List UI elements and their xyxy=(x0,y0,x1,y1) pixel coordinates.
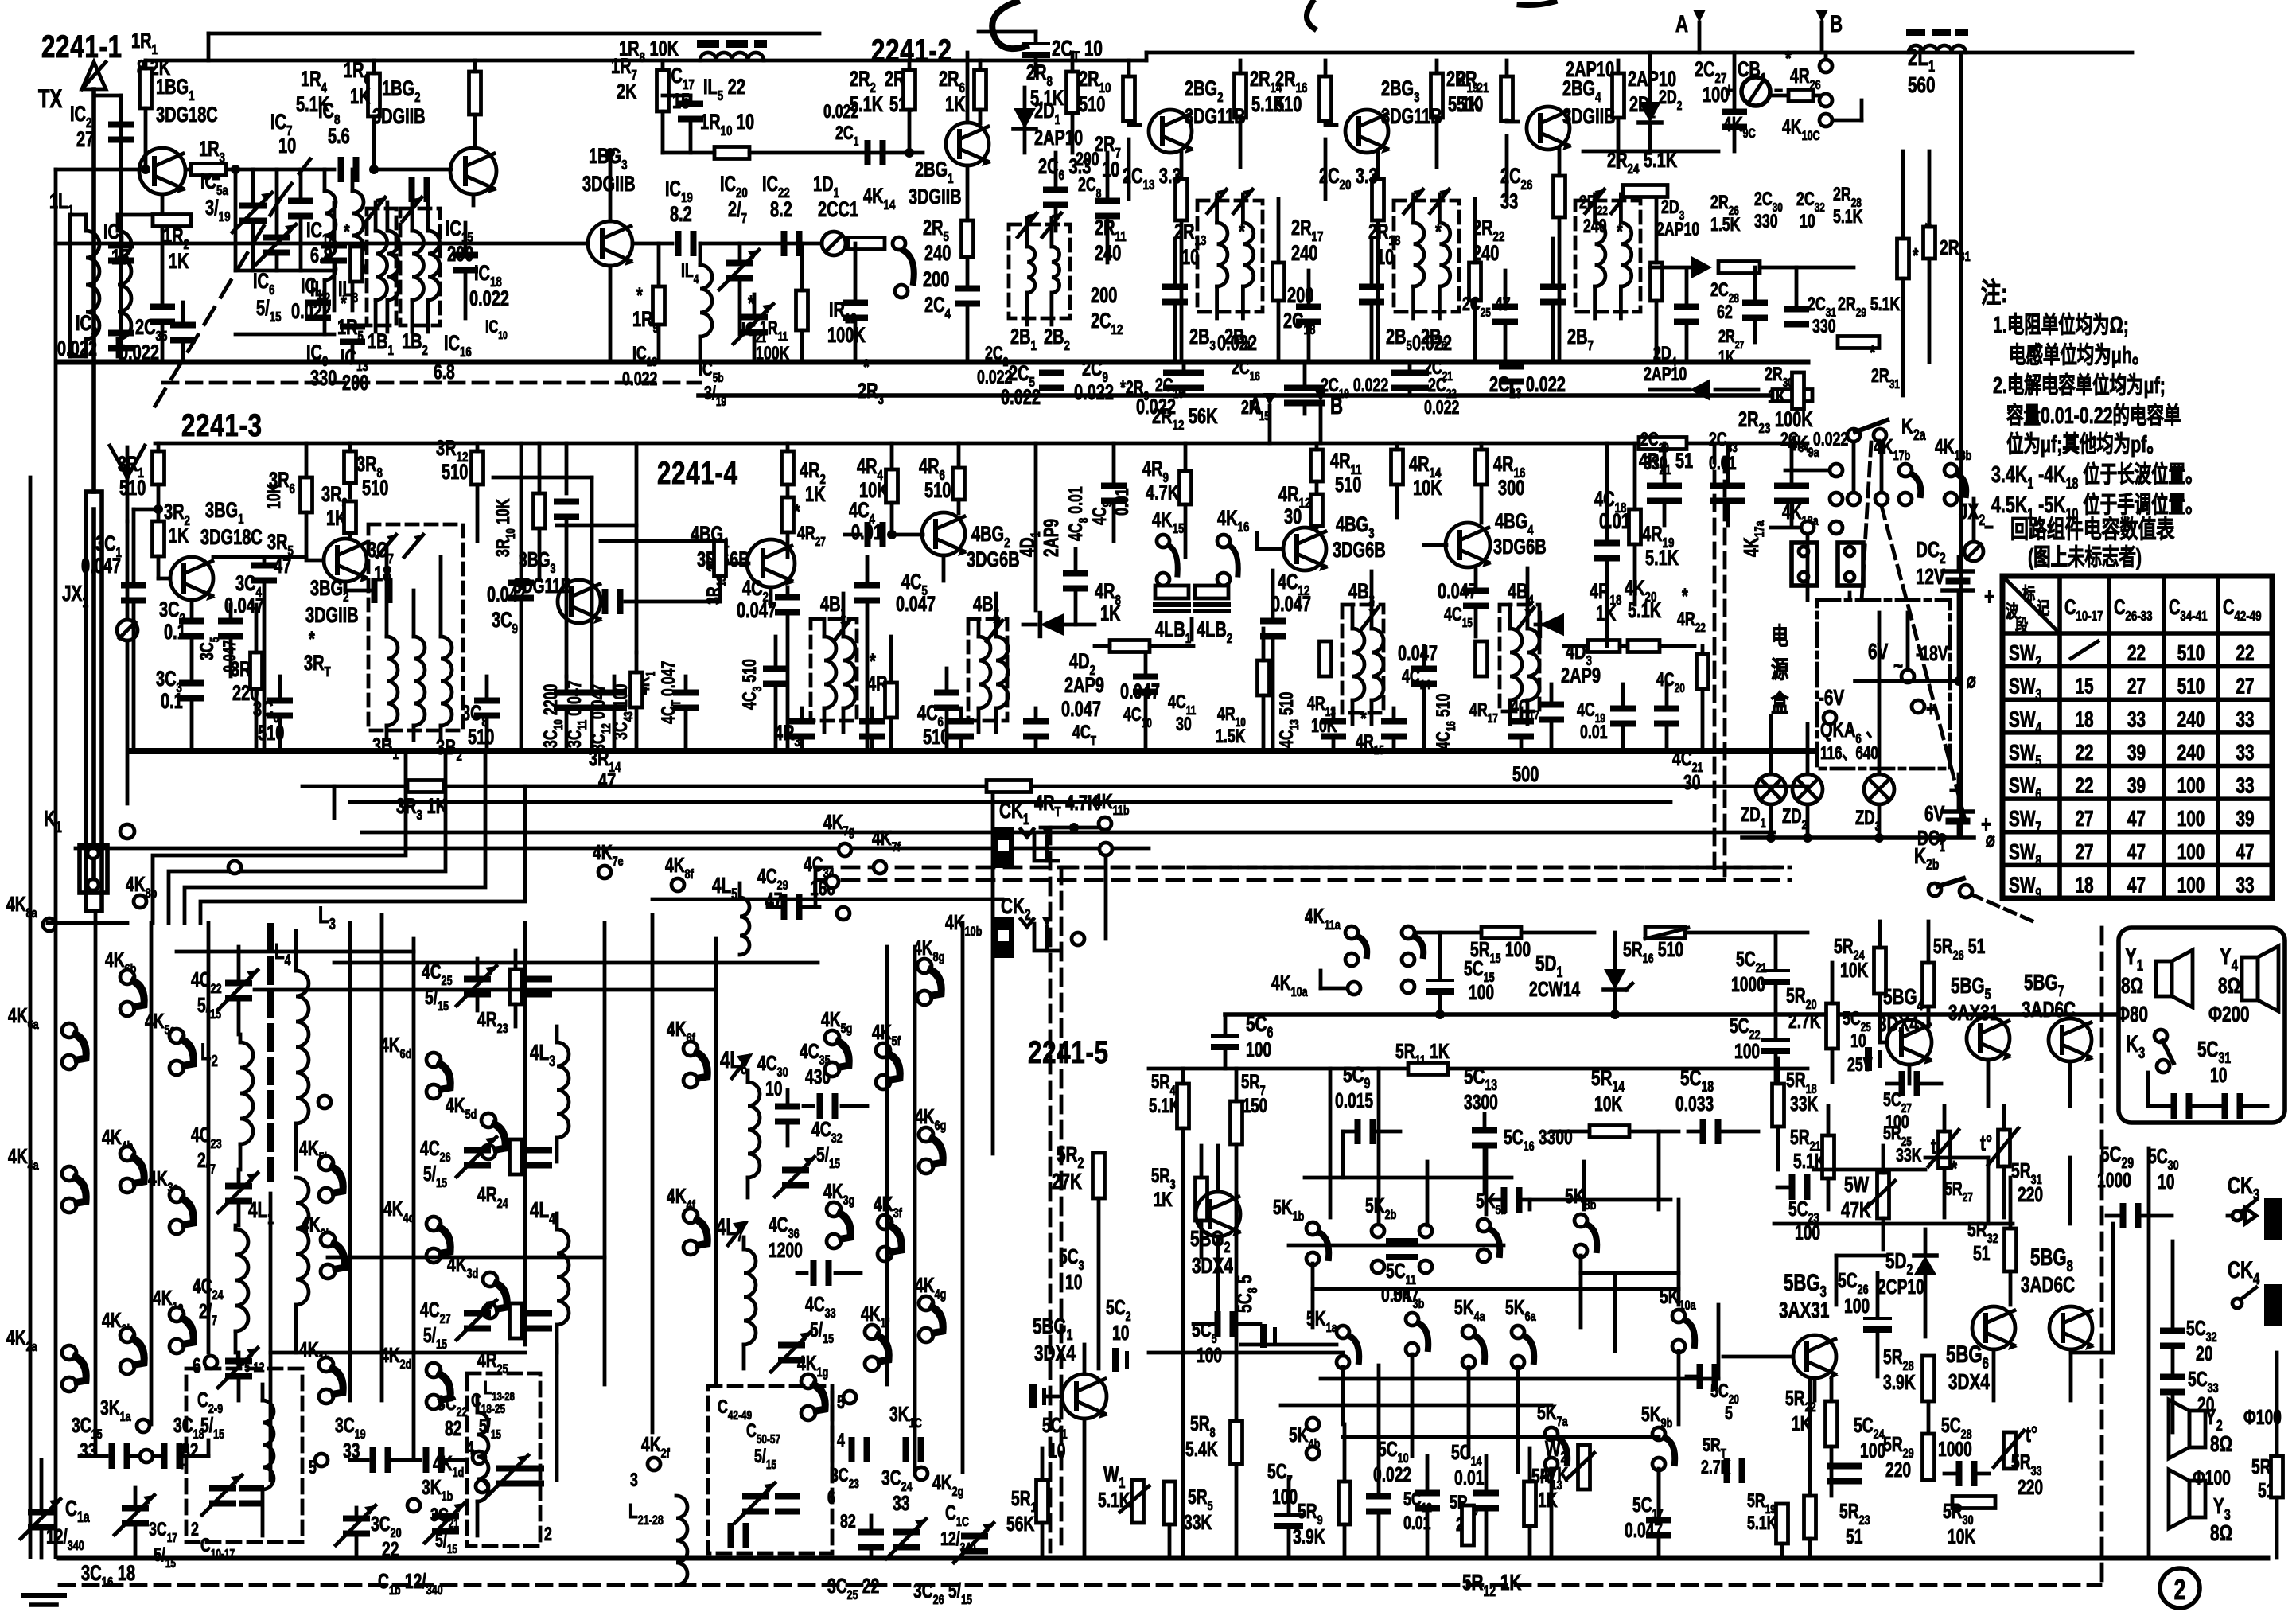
svg-text:27: 27 xyxy=(2075,807,2093,831)
svg-text:2AP9: 2AP9 xyxy=(1064,673,1104,698)
svg-text:82: 82 xyxy=(445,1416,461,1440)
svg-text:33: 33 xyxy=(2236,774,2254,799)
svg-text:3DG6B: 3DG6B xyxy=(1333,538,1386,563)
svg-text:240: 240 xyxy=(2177,741,2205,765)
svg-text:TX: TX xyxy=(38,85,62,113)
svg-text:39: 39 xyxy=(2236,807,2254,831)
svg-text:*: * xyxy=(309,627,315,652)
svg-text:10: 10 xyxy=(1112,1321,1129,1345)
svg-text:−: − xyxy=(1774,78,1783,102)
svg-text:100: 100 xyxy=(2177,807,2205,831)
svg-text:3DGIIB: 3DGIIB xyxy=(372,104,426,129)
svg-text:电: 电 xyxy=(1771,623,1788,650)
svg-text:源: 源 xyxy=(1771,656,1789,683)
svg-text:100: 100 xyxy=(1246,1038,1271,1061)
svg-text:18: 18 xyxy=(2075,707,2093,732)
svg-text:51: 51 xyxy=(1846,1524,1863,1548)
svg-text:回路组件电容数值表: 回路组件电容数值表 xyxy=(2010,516,2175,543)
svg-text:Φ80: Φ80 xyxy=(2116,1003,2148,1027)
svg-text:0.047: 0.047 xyxy=(1061,697,1101,722)
svg-text:B: B xyxy=(1330,392,1343,419)
svg-text:位为μf;其他均为pf。: 位为μf;其他均为pf。 xyxy=(2006,431,2164,458)
svg-text:0.022: 0.022 xyxy=(823,102,858,123)
svg-text:22: 22 xyxy=(2075,774,2093,799)
svg-text:510: 510 xyxy=(362,476,388,500)
svg-text:1K: 1K xyxy=(1100,602,1121,626)
svg-text:4: 4 xyxy=(837,1431,845,1451)
svg-text:3.4K1 -4K18 位于长波位置。: 3.4K1 -4K18 位于长波位置。 xyxy=(1991,461,2202,493)
svg-text:0.022: 0.022 xyxy=(469,286,509,311)
svg-text:0.022: 0.022 xyxy=(1136,395,1176,419)
svg-text:Φ100: Φ100 xyxy=(2193,1466,2231,1489)
svg-text:30: 30 xyxy=(1683,770,1700,794)
svg-text:27: 27 xyxy=(2127,675,2146,699)
svg-text:0.022: 0.022 xyxy=(1412,331,1452,356)
svg-text:33: 33 xyxy=(1500,189,1518,214)
svg-text:3AD6C: 3AD6C xyxy=(2021,1273,2075,1298)
svg-text:510: 510 xyxy=(1079,92,1105,117)
svg-text:(图上未标志者): (图上未标志者) xyxy=(2028,544,2142,570)
svg-text:6V: 6V xyxy=(1924,802,1945,827)
svg-text:510: 510 xyxy=(119,476,146,500)
svg-text:2241-2: 2241-2 xyxy=(871,33,952,68)
svg-text:⌀: ⌀ xyxy=(1986,827,1995,851)
svg-text:10: 10 xyxy=(2158,1170,2174,1193)
svg-text:10: 10 xyxy=(1181,245,1199,270)
svg-text:*: * xyxy=(636,283,643,308)
svg-text:10: 10 xyxy=(278,134,296,158)
svg-text:2AP9: 2AP9 xyxy=(1561,664,1601,688)
svg-text:2241-4: 2241-4 xyxy=(657,455,738,491)
svg-text:2: 2 xyxy=(544,1524,552,1545)
svg-text:47: 47 xyxy=(2127,874,2146,898)
svg-text:220: 220 xyxy=(2018,1182,2043,1206)
svg-text:0.022: 0.022 xyxy=(1424,398,1459,419)
svg-text:2: 2 xyxy=(191,1520,199,1540)
svg-text:2.电解电容单位均为μf;: 2.电解电容单位均为μf; xyxy=(1993,372,2166,399)
svg-text:100K: 100K xyxy=(756,344,790,364)
svg-text:200: 200 xyxy=(923,267,949,292)
svg-text:5.1K: 5.1K xyxy=(1645,546,1679,570)
svg-text:15: 15 xyxy=(2075,675,2093,699)
svg-text:+: + xyxy=(1725,78,1734,102)
svg-text:2CP10: 2CP10 xyxy=(1878,1275,1924,1299)
svg-text:3DG11B: 3DG11B xyxy=(1381,104,1442,129)
svg-text:22: 22 xyxy=(2075,741,2093,765)
svg-text:3.9K: 3.9K xyxy=(1293,1524,1325,1548)
svg-text:*: * xyxy=(1239,220,1245,244)
svg-text:0.047: 0.047 xyxy=(896,592,936,617)
svg-text:300: 300 xyxy=(1498,476,1524,500)
svg-text:10: 10 xyxy=(1049,1439,1065,1462)
svg-text:2AP9: 2AP9 xyxy=(1039,519,1063,557)
svg-text:1K: 1K xyxy=(1718,348,1735,368)
svg-text:0.01: 0.01 xyxy=(1454,1466,1485,1489)
svg-text:240: 240 xyxy=(1095,241,1121,266)
svg-text:220: 220 xyxy=(1885,1458,1911,1482)
svg-text:5.1K: 5.1K xyxy=(1628,598,1661,623)
svg-text:100: 100 xyxy=(2177,774,2205,799)
svg-text:510: 510 xyxy=(1335,473,1361,497)
svg-text:100: 100 xyxy=(2177,840,2205,865)
svg-text:100K: 100K xyxy=(827,323,866,348)
svg-text:6: 6 xyxy=(193,1353,201,1377)
svg-text:33: 33 xyxy=(80,1439,96,1462)
svg-text:10: 10 xyxy=(1850,1031,1866,1052)
svg-text:0.015: 0.015 xyxy=(1335,1088,1373,1112)
svg-text:47: 47 xyxy=(2127,840,2146,865)
svg-text:注:: 注: xyxy=(1981,278,2008,309)
svg-text:1.5K: 1.5K xyxy=(1216,726,1246,747)
svg-text:2: 2 xyxy=(2174,1573,2186,1606)
svg-text:*: * xyxy=(341,291,347,316)
svg-text:510: 510 xyxy=(2177,675,2205,699)
svg-text:33K: 33K xyxy=(1184,1510,1212,1534)
svg-text:Φ200: Φ200 xyxy=(2208,1003,2250,1027)
svg-text:5W: 5W xyxy=(1844,1173,1870,1197)
svg-text:560: 560 xyxy=(1908,73,1936,98)
svg-text:10: 10 xyxy=(1065,1270,1082,1294)
svg-text:510: 510 xyxy=(468,725,494,750)
svg-text:10: 10 xyxy=(2210,1063,2227,1087)
svg-text:3DG11B: 3DG11B xyxy=(1185,104,1246,129)
svg-text:20: 20 xyxy=(2196,1341,2212,1365)
svg-text:3DX4: 3DX4 xyxy=(1034,1341,1076,1366)
svg-text:3DX4: 3DX4 xyxy=(1192,1254,1233,1279)
svg-text:100: 100 xyxy=(1272,1485,1298,1509)
svg-text:12V: 12V xyxy=(1916,565,1945,590)
svg-text:-6V: -6V xyxy=(1819,686,1845,711)
svg-text:200: 200 xyxy=(342,371,368,395)
svg-text:200: 200 xyxy=(1287,283,1313,308)
svg-text:2AP10: 2AP10 xyxy=(1644,364,1687,385)
svg-text:3DG18C: 3DG18C xyxy=(156,103,218,127)
svg-text:电感单位均为μh。: 电感单位均为μh。 xyxy=(2009,342,2149,368)
svg-text:4: 4 xyxy=(177,1453,185,1474)
svg-text:116、640: 116、640 xyxy=(1820,744,1878,764)
svg-text:5: 5 xyxy=(1725,1404,1733,1424)
svg-text:0.022: 0.022 xyxy=(1001,385,1041,410)
svg-text:0.047: 0.047 xyxy=(81,554,121,578)
svg-text:22: 22 xyxy=(2127,641,2146,666)
svg-text:2AP10: 2AP10 xyxy=(1566,57,1614,82)
svg-text:1K: 1K xyxy=(1538,1488,1558,1512)
svg-text:1.5K: 1.5K xyxy=(1710,215,1741,236)
svg-text:3DG6B: 3DG6B xyxy=(967,547,1020,572)
svg-text:标: 标 xyxy=(2022,585,2035,605)
svg-text:220: 220 xyxy=(2018,1475,2043,1499)
svg-text:B: B xyxy=(1830,10,1843,37)
svg-text:15: 15 xyxy=(111,245,129,270)
svg-text:2241-1: 2241-1 xyxy=(41,29,123,64)
svg-text:27: 27 xyxy=(76,127,94,152)
svg-text:6: 6 xyxy=(827,1488,835,1509)
svg-text:22: 22 xyxy=(2236,641,2254,666)
svg-text:100: 100 xyxy=(1844,1294,1870,1318)
svg-text:0.022: 0.022 xyxy=(1217,331,1257,356)
svg-text:100: 100 xyxy=(2177,874,2205,898)
svg-text:33K: 33K xyxy=(1790,1092,1819,1116)
svg-text:39: 39 xyxy=(2127,741,2146,765)
svg-text:240: 240 xyxy=(924,241,951,266)
svg-text:33: 33 xyxy=(2236,741,2254,765)
svg-text:*: * xyxy=(344,220,350,244)
svg-text:10: 10 xyxy=(765,1077,782,1100)
svg-text:0.047: 0.047 xyxy=(1398,641,1438,666)
svg-text:0.022: 0.022 xyxy=(622,369,657,390)
svg-text:240: 240 xyxy=(1583,216,1607,237)
svg-text:*: * xyxy=(748,291,754,316)
svg-text:510: 510 xyxy=(1457,92,1483,117)
svg-text:2CC1: 2CC1 xyxy=(818,197,858,222)
svg-text:3DG6B: 3DG6B xyxy=(1493,535,1547,559)
svg-text:*: * xyxy=(1360,707,1367,731)
svg-text:10K: 10K xyxy=(1413,476,1442,500)
svg-text:0.022: 0.022 xyxy=(1074,380,1114,405)
svg-text:8Ω: 8Ω xyxy=(2218,974,2240,999)
svg-text:2CW14: 2CW14 xyxy=(1529,977,1580,1001)
svg-text:*: * xyxy=(1617,220,1623,244)
svg-text:0.01: 0.01 xyxy=(1580,722,1608,743)
svg-text:33: 33 xyxy=(2127,707,2146,732)
svg-text:0.01: 0.01 xyxy=(1599,509,1630,534)
svg-text:330: 330 xyxy=(310,366,337,391)
svg-text:3DGIIB: 3DGIIB xyxy=(305,603,359,628)
svg-text:t°: t° xyxy=(1980,1131,1992,1156)
svg-text:10K: 10K xyxy=(1840,958,1869,982)
svg-text:−: − xyxy=(1984,516,1994,540)
svg-text:150: 150 xyxy=(1243,1094,1267,1116)
svg-text:2K: 2K xyxy=(617,80,637,104)
svg-text:10: 10 xyxy=(1800,212,1815,232)
svg-text:27K: 27K xyxy=(1052,1170,1082,1194)
svg-text:3DG18C: 3DG18C xyxy=(200,525,263,550)
svg-text:30: 30 xyxy=(1284,504,1302,529)
svg-text:*: * xyxy=(863,355,870,380)
svg-text:8.2: 8.2 xyxy=(670,202,692,227)
svg-text:200: 200 xyxy=(1091,283,1117,308)
svg-text:27: 27 xyxy=(2236,675,2254,699)
svg-text:3DGIIB: 3DGIIB xyxy=(1562,104,1616,129)
svg-text:0.022: 0.022 xyxy=(57,337,97,361)
svg-text:33: 33 xyxy=(2236,874,2254,898)
svg-text:+: + xyxy=(1984,583,1994,610)
svg-text:8.2: 8.2 xyxy=(770,197,792,222)
svg-text:1.电阻单位均为Ω;: 1.电阻单位均为Ω; xyxy=(1993,312,2129,338)
svg-text:5.1K: 5.1K xyxy=(296,92,329,117)
svg-text:段: 段 xyxy=(2015,616,2029,637)
svg-text:*: * xyxy=(1435,220,1442,244)
svg-text:8Ω: 8Ω xyxy=(2121,974,2143,999)
svg-text:330: 330 xyxy=(1754,212,1778,232)
svg-text:⌀: ⌀ xyxy=(1967,668,1976,692)
svg-text:0.033: 0.033 xyxy=(1675,1092,1714,1116)
svg-text:盒: 盒 xyxy=(1770,690,1789,717)
svg-text:3AX31: 3AX31 xyxy=(1779,1299,1830,1323)
svg-text:47: 47 xyxy=(598,769,616,793)
svg-text:82: 82 xyxy=(840,1512,856,1532)
svg-text:1000: 1000 xyxy=(1731,972,1765,996)
svg-text:510: 510 xyxy=(442,460,468,485)
svg-text:51: 51 xyxy=(1973,1241,1991,1265)
svg-text:1200: 1200 xyxy=(769,1238,803,1262)
svg-text:3300: 3300 xyxy=(1464,1090,1498,1114)
svg-text:47K: 47K xyxy=(1841,1198,1871,1223)
svg-text:62: 62 xyxy=(1717,302,1733,323)
svg-text:10: 10 xyxy=(1376,245,1394,270)
svg-text:*: * xyxy=(870,649,876,674)
svg-text:240: 240 xyxy=(1291,241,1317,266)
svg-text:10K: 10K xyxy=(264,483,285,509)
svg-text:2241-5: 2241-5 xyxy=(1028,1034,1109,1070)
svg-text:4.7K: 4.7K xyxy=(1146,481,1179,505)
svg-text:A: A xyxy=(1675,10,1688,37)
svg-text:47: 47 xyxy=(2127,807,2146,831)
svg-text:10: 10 xyxy=(1102,158,1119,182)
svg-text:33K: 33K xyxy=(1896,1146,1922,1166)
svg-text:1K: 1K xyxy=(1768,387,1786,407)
svg-text:*: * xyxy=(1870,341,1876,364)
svg-text:100: 100 xyxy=(1734,1039,1760,1063)
svg-text:33: 33 xyxy=(2236,707,2254,732)
svg-text:1000: 1000 xyxy=(1938,1437,1972,1461)
svg-text:*: * xyxy=(1951,1157,1957,1182)
svg-text:22: 22 xyxy=(382,1537,399,1561)
svg-text:容量0.01-0.22的电容单: 容量0.01-0.22的电容单 xyxy=(2006,403,2181,429)
svg-text:*: * xyxy=(1682,584,1688,609)
svg-text:0.047: 0.047 xyxy=(1381,1283,1419,1306)
svg-text:39: 39 xyxy=(2127,774,2146,799)
svg-text:5.4K: 5.4K xyxy=(1185,1437,1218,1461)
svg-text:1K: 1K xyxy=(169,524,189,548)
svg-text:1K: 1K xyxy=(805,482,826,507)
svg-text:2AP10: 2AP10 xyxy=(1034,126,1083,150)
svg-text:56K: 56K xyxy=(1006,1512,1035,1536)
svg-text:3DX4: 3DX4 xyxy=(1948,1370,1990,1395)
svg-text:3.9K: 3.9K xyxy=(1883,1370,1916,1394)
svg-text:100: 100 xyxy=(1197,1343,1222,1367)
svg-text:0.047: 0.047 xyxy=(220,640,240,672)
svg-text:100: 100 xyxy=(1860,1439,1885,1462)
svg-text:27: 27 xyxy=(2075,840,2093,865)
svg-text:−: − xyxy=(1949,778,1958,802)
svg-text:A: A xyxy=(1249,392,1262,419)
svg-text:2.7K: 2.7K xyxy=(1788,1009,1821,1033)
svg-text:2241-3: 2241-3 xyxy=(181,407,263,443)
svg-text:510: 510 xyxy=(2177,641,2205,666)
svg-text:5.1K: 5.1K xyxy=(1747,1513,1777,1534)
svg-text:1K: 1K xyxy=(945,92,966,117)
svg-text:0.022: 0.022 xyxy=(119,341,159,365)
svg-text:记: 记 xyxy=(2037,599,2049,619)
svg-text:10K: 10K xyxy=(1948,1524,1976,1548)
svg-text:10K: 10K xyxy=(1594,1092,1623,1116)
svg-text:6.8: 6.8 xyxy=(434,360,455,384)
svg-text:t°: t° xyxy=(2026,1423,2037,1447)
svg-text:47: 47 xyxy=(2236,840,2254,865)
svg-text:3: 3 xyxy=(630,1470,638,1491)
svg-text:2AP10: 2AP10 xyxy=(1656,220,1699,240)
svg-text:330: 330 xyxy=(1812,317,1836,337)
svg-text:1K: 1K xyxy=(350,84,371,109)
svg-text:8Ω: 8Ω xyxy=(2210,1432,2232,1457)
svg-text:100: 100 xyxy=(1469,980,1494,1004)
svg-text:0.047: 0.047 xyxy=(1271,592,1311,617)
svg-text:510: 510 xyxy=(1275,92,1302,117)
svg-text:1K: 1K xyxy=(169,249,189,274)
svg-text:33: 33 xyxy=(893,1491,909,1515)
svg-text:30: 30 xyxy=(1176,714,1192,735)
svg-text:240: 240 xyxy=(2177,707,2205,732)
svg-text:*: * xyxy=(1913,243,1919,267)
svg-text:18: 18 xyxy=(2075,874,2093,898)
svg-text:5.1K: 5.1K xyxy=(1833,207,1863,228)
svg-text:500: 500 xyxy=(1512,762,1539,787)
svg-text:3DGIIB: 3DGIIB xyxy=(909,185,962,209)
svg-text:240: 240 xyxy=(1473,241,1499,266)
svg-text:8Ω: 8Ω xyxy=(2210,1521,2232,1546)
svg-text:1K: 1K xyxy=(1154,1188,1173,1210)
svg-text:510: 510 xyxy=(924,478,951,503)
svg-text:3DG11B: 3DG11B xyxy=(513,574,572,598)
svg-text:5.6: 5.6 xyxy=(328,124,350,149)
